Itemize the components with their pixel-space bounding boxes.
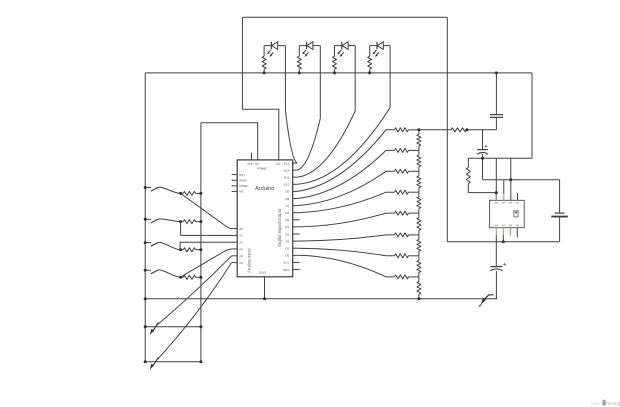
switch S4 bbox=[145, 269, 151, 271]
sensor LDR2 bbox=[145, 361, 201, 363]
svg-text:D13: D13 bbox=[284, 161, 290, 165]
resistor R10 bbox=[183, 220, 195, 224]
wire node C horizontal bbox=[419, 129, 451, 131]
svg-text:5V: 5V bbox=[255, 162, 259, 166]
wire LDR2 to A5 bbox=[157, 263, 232, 361]
resistor R2 bbox=[298, 46, 300, 57]
op-amp U1 Arduino body bbox=[237, 160, 293, 277]
LED1 bbox=[264, 45, 271, 47]
node C2 node A junction bbox=[481, 157, 484, 160]
svg-text:A1: A1 bbox=[239, 234, 243, 238]
switch S3 bbox=[145, 242, 151, 244]
resistor R9 bbox=[183, 191, 195, 195]
node LED2 bus junction bbox=[298, 71, 301, 74]
wire chip pin3 top bbox=[510, 158, 512, 200]
resistor R4 bbox=[369, 46, 371, 57]
resistor ladder rail R15-R22 bbox=[418, 130, 420, 135]
node LED3 bus junction bbox=[333, 71, 336, 74]
svg-text:A4: A4 bbox=[239, 254, 243, 258]
resistor R7 bbox=[395, 169, 409, 173]
resistor R11 bbox=[395, 254, 409, 258]
svg-text:Digital Input/Output: Digital Input/Output bbox=[277, 208, 282, 247]
svg-text:A2: A2 bbox=[239, 241, 243, 245]
wire D3 to R11 bbox=[297, 248, 394, 256]
node chip pin3 junction bbox=[509, 178, 512, 181]
switch S7 bbox=[482, 295, 493, 302]
wire battery bottom lead bbox=[559, 217, 561, 242]
resistor R13 bbox=[467, 158, 469, 167]
svg-text:RST: RST bbox=[239, 173, 245, 177]
node ladder GND junction bbox=[417, 297, 420, 300]
svg-text:A5: A5 bbox=[239, 261, 243, 265]
wire R13 to chip pin1 bbox=[468, 192, 496, 194]
svg-text:Vin: Vin bbox=[276, 162, 281, 166]
wire GND rail corner bbox=[495, 297, 497, 299]
wire 3V3 stub bbox=[250, 153, 252, 160]
wire LED3 to D11 bbox=[297, 46, 355, 178]
node R10 rail2 bbox=[199, 220, 202, 223]
node S4 divider bbox=[179, 276, 182, 279]
resistor R11 bbox=[183, 248, 195, 252]
wire battery negative rail bbox=[447, 241, 559, 243]
wire LED2 to D12 bbox=[297, 46, 320, 171]
wire LED1 to D13 bbox=[285, 46, 297, 163]
LED2 bbox=[299, 45, 306, 47]
wire S2 to A1 bbox=[181, 222, 232, 236]
wire chip pin6 to rail bbox=[502, 235, 504, 242]
svg-text:IOREF: IOREF bbox=[239, 184, 248, 188]
node S2 divider bbox=[179, 220, 182, 223]
svg-text:D7: D7 bbox=[285, 204, 289, 208]
node LDR1 rail2 bbox=[199, 325, 202, 328]
wire C1 top lead bbox=[495, 73, 497, 115]
svg-text:D8: D8 bbox=[285, 197, 289, 201]
wire S4 to A3 bbox=[180, 249, 232, 277]
wire Vin to Arduino bbox=[242, 109, 278, 160]
resistor R8 bbox=[395, 190, 409, 194]
battery BT1 bbox=[555, 212, 565, 214]
Arduino analog stubs bbox=[232, 228, 238, 230]
wire chip pin5 down bbox=[495, 235, 497, 266]
resistor R14 bbox=[451, 128, 467, 132]
wire node A drop bbox=[482, 158, 484, 180]
chip U2 pin marks bbox=[495, 202, 498, 204]
wire chip pin1 top bbox=[495, 158, 497, 200]
wire D8 to R6 bbox=[297, 150, 394, 198]
node R9 rail2 bbox=[199, 192, 202, 195]
node LED1 bus junction bbox=[263, 71, 266, 74]
LED4 bbox=[370, 45, 377, 47]
wire Vin vertical left bbox=[241, 17, 243, 109]
wire battery top lead bbox=[559, 180, 561, 213]
node S1 divider bbox=[179, 192, 182, 195]
svg-text:D0: D0 bbox=[285, 254, 289, 258]
switch S2 bbox=[145, 218, 151, 220]
capacitor C2 bbox=[477, 149, 488, 151]
node LED4 bus junction bbox=[368, 71, 371, 74]
node S2 rail1 bbox=[144, 218, 147, 221]
resistor R10 bbox=[395, 233, 409, 237]
wire D5 to R9 bbox=[297, 213, 394, 227]
node R12 rail2 bbox=[199, 276, 202, 279]
wire D6 to R8 bbox=[297, 192, 394, 213]
svg-text:D4: D4 bbox=[285, 225, 289, 229]
chip U2 bottom leg pin8 bbox=[516, 228, 518, 238]
sensor LDR1 bbox=[145, 326, 201, 328]
wire C1 bottom lead bbox=[495, 118, 497, 130]
node GND rail1 junction bbox=[144, 297, 147, 300]
resistor R6 bbox=[395, 148, 409, 152]
wire C2 bottom lead bbox=[482, 154, 484, 158]
svg-text:D9: D9 bbox=[285, 190, 289, 194]
resistor R12 bbox=[395, 275, 409, 279]
node LDR2 rail1 bbox=[144, 360, 147, 363]
svg-text:D1: D1 bbox=[285, 247, 289, 251]
node S3 rail1 bbox=[144, 241, 147, 244]
svg-text:D11: D11 bbox=[284, 176, 290, 180]
svg-text:AREF: AREF bbox=[239, 178, 247, 182]
wire Vin top line bbox=[242, 16, 447, 18]
Arduino right stubs bbox=[293, 162, 298, 164]
chip U2 top stub pin4 bbox=[516, 193, 518, 200]
wire Arduino GND lead bbox=[264, 277, 266, 299]
svg-text:SDA: SDA bbox=[283, 268, 290, 272]
wire 5V rail bbox=[200, 123, 202, 362]
svg-text:D12: D12 bbox=[284, 168, 290, 172]
svg-text:D6: D6 bbox=[285, 211, 289, 215]
chip U2 bottom leg pin6 bbox=[502, 228, 504, 235]
svg-text:Arduino: Arduino bbox=[255, 186, 274, 192]
wire left GND rail bbox=[144, 73, 146, 362]
wire chip pin2 top bbox=[503, 180, 505, 194]
node S4 rail1 bbox=[144, 269, 147, 272]
node Arduino GND junction bbox=[263, 297, 266, 300]
svg-text:D5: D5 bbox=[285, 218, 289, 222]
wire S3 to A2 bbox=[180, 242, 232, 250]
svg-text:A3: A3 bbox=[239, 247, 243, 251]
wire C3 bottom lead bbox=[495, 271, 497, 299]
wire GND top bus bbox=[145, 72, 532, 74]
chip U2 crystal icon bbox=[514, 211, 518, 217]
capacitor C3 bbox=[490, 266, 502, 268]
node S1 rail1 bbox=[144, 186, 147, 189]
wire D2 to R12 bbox=[297, 255, 394, 277]
node C1 bus junction bbox=[495, 71, 498, 74]
chip U2 top legs bbox=[495, 194, 497, 201]
wire LED4 to D10 bbox=[297, 46, 390, 185]
wire C2 top lead bbox=[482, 130, 484, 150]
chip U2 bottom leg pin7 bbox=[509, 228, 511, 236]
node R11 rail2 bbox=[199, 248, 202, 251]
resistor R3 bbox=[334, 46, 336, 57]
wire D4 to R10 bbox=[297, 235, 394, 241]
svg-text:D10: D10 bbox=[284, 183, 290, 187]
wire D9 to R5 bbox=[297, 130, 394, 192]
svg-text:N/C: N/C bbox=[239, 190, 244, 194]
node chip pin6 junction bbox=[502, 240, 505, 243]
node R14 bend junction bbox=[465, 128, 468, 131]
svg-text:3V3: 3V3 bbox=[247, 162, 253, 166]
wire D7 to R7 bbox=[297, 171, 394, 205]
wire GND bus right drop bbox=[531, 73, 533, 158]
svg-text:A0: A0 bbox=[239, 227, 243, 231]
resistor R5 bbox=[395, 128, 409, 132]
chip U2 body bbox=[490, 200, 525, 227]
capacitor C1 bbox=[490, 114, 503, 116]
wire Vin vertical right bbox=[446, 17, 448, 242]
wire 5V to Arduino bbox=[201, 123, 258, 160]
LED3 bbox=[335, 45, 342, 47]
resistor R1 bbox=[263, 46, 265, 57]
switch S1 bbox=[145, 187, 151, 189]
wire S1 to A0 bbox=[181, 193, 232, 228]
chip U2 bottom leg pin5 bbox=[495, 228, 497, 235]
resistor R12 bbox=[183, 275, 195, 279]
node chip pin1 junction bbox=[495, 191, 498, 194]
node LDR1 rail1 bbox=[144, 325, 147, 328]
svg-text:D3: D3 bbox=[285, 232, 289, 236]
wire node B horizontal bbox=[483, 179, 560, 181]
svg-text:GND: GND bbox=[259, 271, 267, 275]
svg-text:fritzing: fritzing bbox=[606, 401, 620, 407]
node ladder top junction bbox=[417, 128, 420, 131]
node S3 divider bbox=[179, 248, 182, 251]
wire GND bottom rail bbox=[145, 298, 497, 300]
wire node A horizontal bbox=[468, 157, 532, 159]
node LDR2 rail2 bbox=[199, 360, 202, 363]
Arduino left stubs bbox=[232, 174, 238, 176]
svg-text:Power: Power bbox=[257, 167, 267, 171]
svg-text:Analog Input: Analog Input bbox=[246, 248, 251, 273]
wire LDR1 to A4 bbox=[157, 256, 232, 325]
svg-text:SCL: SCL bbox=[283, 261, 289, 265]
resistor R9 bbox=[395, 211, 409, 215]
svg-text:D2: D2 bbox=[285, 239, 289, 243]
